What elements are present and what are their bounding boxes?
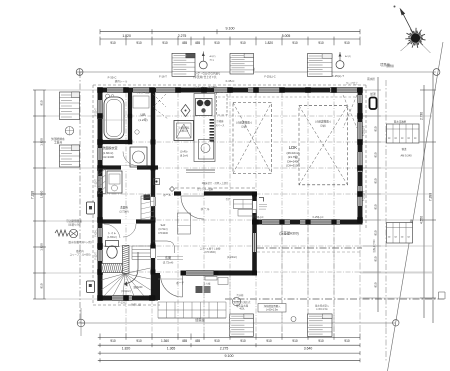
svg-text:1.820: 1.820 <box>122 346 131 350</box>
svg-text:ポーチ: ポーチ <box>176 281 184 285</box>
svg-text:敷地内: 敷地内 <box>76 249 84 253</box>
svg-text:物干し場: 物干し場 <box>131 303 141 307</box>
svg-text:910: 910 <box>374 204 378 209</box>
svg-text:雨水枡: 雨水枡 <box>367 77 375 81</box>
svg-text:給湯: 給湯 <box>370 92 376 96</box>
svg-text:(3.31m²): (3.31m²) <box>121 290 131 293</box>
svg-text:910: 910 <box>374 230 378 235</box>
svg-text:910: 910 <box>374 126 378 131</box>
svg-text:455: 455 <box>195 41 201 45</box>
svg-text:F-13-L: F-13-L <box>118 302 126 305</box>
svg-text:9.100: 9.100 <box>226 26 235 30</box>
svg-text:(CH=5100): (CH=5100) <box>286 164 300 168</box>
svg-text:(小屋裏物置↑): (小屋裏物置↑) <box>315 120 331 124</box>
svg-text:910: 910 <box>344 339 350 343</box>
svg-text:AM 9.240: AM 9.240 <box>400 154 412 158</box>
svg-text:(見積り外): (見積り外) <box>68 223 80 227</box>
svg-text:F-25(L)-C: F-25(L)-C <box>253 216 264 219</box>
svg-text:クリア仕上: クリア仕上 <box>346 81 359 85</box>
svg-text:(1.2坪): (1.2坪) <box>138 117 147 122</box>
svg-text:F-16-T: F-16-T <box>159 75 167 79</box>
svg-text:玄関: 玄関 <box>165 255 171 260</box>
svg-text:2.275: 2.275 <box>220 346 229 350</box>
svg-text:1.820: 1.820 <box>122 34 131 38</box>
svg-text:910: 910 <box>214 41 220 45</box>
svg-text:910: 910 <box>136 339 142 343</box>
svg-text:3.640: 3.640 <box>304 346 313 350</box>
svg-text:浄化槽設置費入: 浄化槽設置費入 <box>264 304 281 308</box>
svg-text:F-35-C: F-35-C <box>108 76 117 80</box>
svg-text:2.275: 2.275 <box>178 34 187 38</box>
svg-text:7.280: 7.280 <box>31 191 35 199</box>
svg-text:910: 910 <box>344 41 350 45</box>
svg-text:トイレ: トイレ <box>108 231 117 235</box>
svg-text:AC(P): AC(P) <box>345 55 351 58</box>
svg-text:30 φ: 30 φ <box>210 58 215 61</box>
svg-text:910: 910 <box>292 41 298 45</box>
svg-text:910: 910 <box>318 41 324 45</box>
svg-text:踏面240: 踏面240 <box>134 285 143 289</box>
svg-text:F-25(L)-T: F-25(L)-T <box>363 190 366 201</box>
svg-text:引込開閉器盤: 引込開閉器盤 <box>66 219 82 223</box>
svg-text:(深基礎H300): (深基礎H300) <box>279 231 298 236</box>
svg-text:F-09-L: F-09-L <box>95 229 98 237</box>
svg-text:(3.72m²): (3.72m²) <box>163 261 174 265</box>
svg-text:外部給排水: 外部給排水 <box>51 137 65 141</box>
svg-text:L=30×1.5m: L=30×1.5m <box>316 308 328 311</box>
svg-text:(3+R)↑: (3+R)↑ <box>180 151 188 154</box>
svg-text:CH=2400: CH=2400 <box>102 155 114 159</box>
svg-text:雨水排水管入: 雨水排水管入 <box>315 304 330 308</box>
svg-text:910: 910 <box>162 41 168 45</box>
svg-text:F-25(L)-T: F-25(L)-T <box>363 125 366 136</box>
svg-text:境界線: 境界線 <box>386 64 394 68</box>
svg-text:L=30×1.5m: L=30×1.5m <box>266 309 278 312</box>
svg-text:9+R: 9+R <box>161 224 166 227</box>
svg-text:910: 910 <box>266 339 272 343</box>
svg-text:(CH=1800): (CH=1800) <box>204 252 216 254</box>
svg-text:5.005: 5.005 <box>282 34 291 38</box>
svg-text:1.820: 1.820 <box>265 41 273 45</box>
svg-text:1.820: 1.820 <box>40 138 44 146</box>
svg-text:910: 910 <box>40 283 44 288</box>
svg-text:910: 910 <box>240 339 246 343</box>
svg-text:雨水浸透桝: 雨水浸透桝 <box>394 120 407 124</box>
svg-text:側溝: 側溝 <box>402 147 407 151</box>
svg-text:散水栓(敷地内1ヶ所): 散水栓(敷地内1ヶ所) <box>68 240 91 244</box>
svg-text:建具レール: 建具レール <box>115 79 128 83</box>
svg-text:455: 455 <box>182 339 188 343</box>
svg-text:(3.72m²): (3.72m²) <box>158 228 167 231</box>
svg-text:F-25(L)-T: F-25(L)-T <box>332 74 344 78</box>
svg-text:LDK: LDK <box>289 145 297 150</box>
svg-text:(平天井) 仕上げド共: (平天井) 仕上げド共 <box>193 75 217 79</box>
svg-text:(2帖): (2帖) <box>241 125 247 129</box>
svg-text:455: 455 <box>182 41 188 45</box>
svg-text:1.820: 1.820 <box>40 190 44 198</box>
svg-text:CH=2400: CH=2400 <box>158 233 168 235</box>
svg-text:910: 910 <box>374 256 378 261</box>
svg-text:455: 455 <box>195 339 201 343</box>
svg-text:910: 910 <box>40 100 44 105</box>
svg-text:(2帖): (2帖) <box>320 124 326 128</box>
svg-text:工事共: 工事共 <box>54 141 62 145</box>
svg-text:(1.24m²): (1.24m²) <box>227 255 237 259</box>
svg-text:910: 910 <box>374 178 378 183</box>
svg-text:F-25-T: F-25-T <box>95 108 98 116</box>
svg-text:910: 910 <box>374 282 378 287</box>
svg-text:ホール: ホール <box>163 193 171 197</box>
svg-text:910: 910 <box>240 41 246 45</box>
svg-text:UB: UB <box>141 113 147 117</box>
svg-text:(小屋裏物置↑): (小屋裏物置↑) <box>236 121 252 125</box>
svg-text:F-35-C: F-35-C <box>226 79 235 83</box>
svg-text:910: 910 <box>110 339 116 343</box>
svg-text:910: 910 <box>214 339 220 343</box>
svg-text:F-25(L)-C: F-25(L)-C <box>264 75 275 79</box>
svg-text:ホール: ホール <box>200 206 209 211</box>
svg-text:F-13-T: F-13-T <box>95 179 98 187</box>
svg-text:洗面脱衣室: 洗面脱衣室 <box>102 145 117 150</box>
svg-text:AC(P): AC(P) <box>210 55 216 58</box>
svg-text:引戸: 引戸 <box>226 197 231 201</box>
svg-text:9.100: 9.100 <box>225 354 234 358</box>
svg-text:洗面所: 洗面所 <box>120 206 128 210</box>
svg-text:F-25(L)-C: F-25(L)-C <box>313 216 324 219</box>
svg-text:1.360: 1.360 <box>161 339 169 343</box>
svg-text:460L: 460L <box>239 308 245 311</box>
svg-text:(3.72m²): (3.72m²) <box>119 211 128 214</box>
svg-text:1.365: 1.365 <box>167 346 176 350</box>
svg-text:1.820: 1.820 <box>40 243 44 251</box>
svg-text:910: 910 <box>292 339 298 343</box>
svg-text:910: 910 <box>110 41 116 45</box>
svg-text:(1.65m²): (1.65m²) <box>107 236 117 239</box>
svg-text:(8.2m²): (8.2m²) <box>180 155 188 158</box>
svg-text:スリーブ入 (L=300): スリーブ入 (L=300) <box>70 253 91 257</box>
svg-text:910: 910 <box>374 152 378 157</box>
svg-text:F-13-T: F-13-T <box>95 252 98 260</box>
svg-text:910: 910 <box>136 41 142 45</box>
svg-text:910: 910 <box>318 339 324 343</box>
